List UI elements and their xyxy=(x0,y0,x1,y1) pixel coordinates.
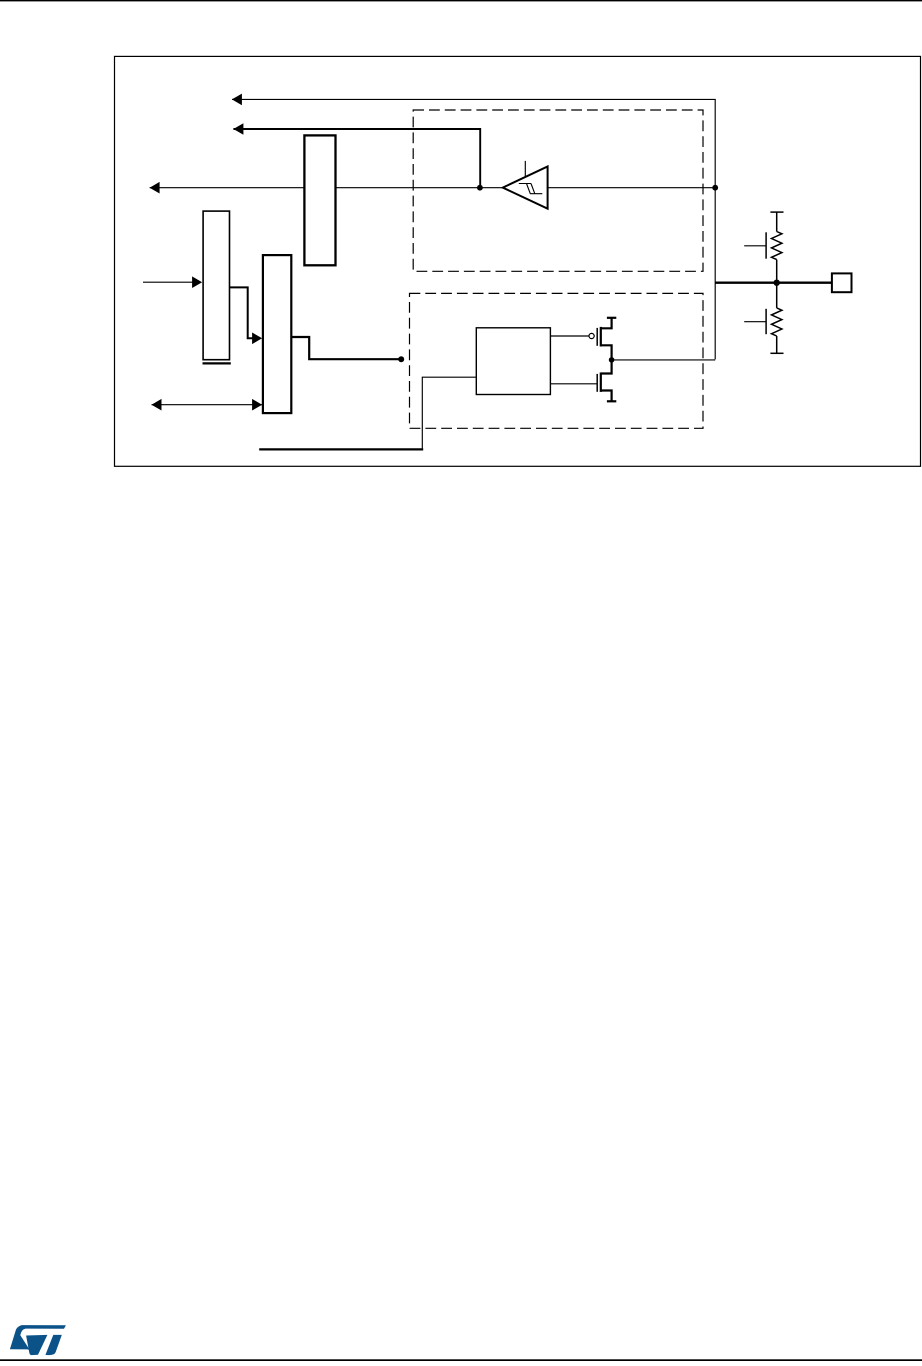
arrowhead: into left register xyxy=(192,276,202,288)
wire: write input line into left register xyxy=(143,281,193,283)
schmitt trigger enable tick xyxy=(524,161,526,177)
arrowhead: top read line xyxy=(232,94,242,106)
arrowhead: double arrow left xyxy=(152,399,162,411)
wire: top read line to bus xyxy=(232,99,715,359)
wire: pad line to pull-down resistor xyxy=(776,283,778,308)
wire: step line register2 to terminal dot xyxy=(291,337,401,359)
nmos VSS tick xyxy=(607,400,616,402)
wire: pull-down resistor to VSS tick xyxy=(776,336,778,353)
wire: read/write double arrow xyxy=(152,404,263,406)
node: bus/schmitt input junction xyxy=(712,185,718,191)
arrowhead: double arrow right xyxy=(252,399,262,411)
node: pad line junction xyxy=(774,280,780,286)
pmos gate lead xyxy=(550,335,588,337)
pull-down resistor (zigzag) xyxy=(772,308,782,336)
pmos channel bar xyxy=(600,327,602,347)
wire: bold feedback line xyxy=(233,129,480,188)
node: feedback/schmitt output junction xyxy=(477,185,483,191)
nmos channel bar xyxy=(600,373,602,392)
pull-down VSS tick xyxy=(770,352,783,354)
nmos drain xyxy=(601,360,612,374)
schmitt trigger hysteresis glyph xyxy=(519,184,543,194)
pmos gate bar xyxy=(596,328,598,346)
header rule xyxy=(0,0,922,1)
nmos source to VSS tick xyxy=(601,391,612,402)
wire: block lead left and down xyxy=(422,377,476,448)
output control block xyxy=(476,328,550,395)
wire: VDD tick to pull-up resistor xyxy=(776,212,778,231)
pull-up VDD tick xyxy=(770,211,783,213)
nmos gate lead xyxy=(550,383,596,385)
nmos gate bar xyxy=(596,374,598,392)
arrowhead: bold feedback line xyxy=(233,123,243,135)
wire: step line register1 to register2 xyxy=(230,287,254,338)
pull-up resistor (zigzag) xyxy=(772,232,782,260)
register block 1 (left) xyxy=(203,211,229,360)
register block (top middle, white fill over input line) xyxy=(304,135,335,265)
wire: bold pad line xyxy=(715,282,832,284)
node: mos drain junction xyxy=(609,357,615,363)
pmos drain xyxy=(601,345,612,360)
wire: pull-up resistor to pad line xyxy=(776,260,778,283)
wire: schmitt input to bus xyxy=(548,187,716,189)
footer rule xyxy=(0,1359,922,1361)
pull-up gate lead xyxy=(744,245,766,247)
arrowhead: into register 2 xyxy=(252,333,262,345)
pmos VDD tick xyxy=(607,317,616,319)
wire: input data line (left arrow to schmitt output) xyxy=(150,187,503,189)
I/O pad box xyxy=(832,273,852,292)
pmos gate bubble xyxy=(589,333,594,338)
pull-up transistor gate bar xyxy=(765,232,767,258)
arrowhead: input data line xyxy=(150,182,160,194)
dashed box: output driver xyxy=(410,293,704,428)
pmos source to VDD tick xyxy=(601,318,612,329)
figure frame xyxy=(115,56,921,466)
wire: bold bottom line xyxy=(259,448,423,450)
register block 2 (output data register) xyxy=(263,255,291,413)
bold underline below left register xyxy=(203,362,231,364)
dashed box: input driver xyxy=(413,110,703,271)
pull-down gate lead xyxy=(744,321,766,323)
schmitt trigger (triangle) xyxy=(503,167,548,209)
pull-down transistor gate bar xyxy=(765,309,767,334)
node: terminal dot of register2 line xyxy=(398,356,404,362)
ST logo xyxy=(10,1325,66,1355)
wire: drain junction to bus xyxy=(612,359,716,361)
